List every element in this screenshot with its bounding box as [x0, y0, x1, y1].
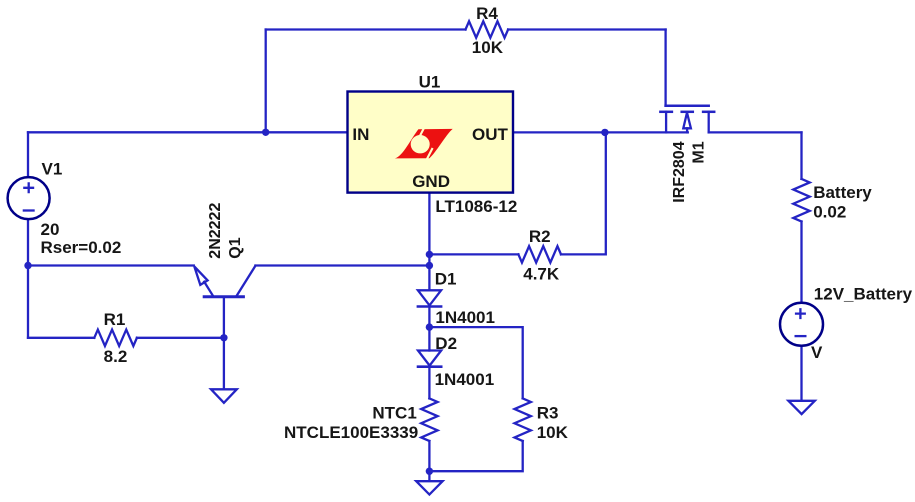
svg-text:R1: R1 — [104, 310, 126, 329]
resistor NTC1 — [421, 398, 437, 441]
svg-text:4.7K: 4.7K — [523, 265, 560, 284]
svg-text:2N2222: 2N2222 — [207, 203, 224, 259]
node dot OUT/R2 junction — [601, 129, 608, 136]
wire top rail right — [508, 28, 665, 30]
regulator U1 box — [348, 92, 514, 193]
wire IN rail — [28, 131, 348, 133]
wire R3 branch top — [429, 327, 522, 398]
wire battery resistor bottom — [800, 222, 802, 303]
transistor Q1 emitter diagonal — [204, 282, 212, 296]
wire 12V battery bottom — [800, 346, 802, 401]
svg-text:GND: GND — [412, 172, 450, 191]
wire D1 to D2 — [428, 307, 430, 351]
wire V1 top — [27, 132, 29, 177]
svg-text:12V_Battery: 12V_Battery — [814, 285, 913, 304]
V1 plus — [23, 182, 35, 210]
wire D2 to NTC1 — [428, 367, 430, 399]
node dot GND/R2 junction — [426, 251, 433, 258]
svg-text:OUT: OUT — [472, 125, 509, 144]
svg-text:0.02: 0.02 — [813, 203, 846, 222]
mosfet M1 body arrow — [683, 113, 691, 129]
node dot D1/D2/R3 junction — [426, 323, 433, 330]
wire R2 right leg — [561, 132, 606, 254]
wire R2 left — [429, 253, 518, 255]
node dot GND/collector junction — [426, 262, 433, 269]
svg-text:R3: R3 — [537, 403, 559, 422]
svg-text:IN: IN — [352, 125, 369, 144]
svg-text:Battery: Battery — [813, 183, 872, 202]
wire U1 GND lead — [428, 193, 430, 291]
wire emitter rail — [28, 264, 194, 266]
wire collector rail — [255, 264, 429, 266]
wire top rail left — [266, 28, 466, 30]
resistor R2 — [518, 246, 561, 262]
diode D1 — [418, 290, 441, 305]
wire mid ground lead — [428, 471, 430, 481]
mosfet M1 gate lead — [664, 30, 666, 106]
svg-text:R4: R4 — [476, 4, 498, 23]
svg-text:D1: D1 — [435, 269, 457, 288]
ground right — [788, 401, 814, 414]
diode D2 — [418, 351, 441, 366]
node dot V1/emitter junction — [24, 262, 31, 269]
wire R1 lead left — [28, 337, 94, 339]
svg-text:20: 20 — [41, 220, 60, 239]
V1 minus — [23, 209, 35, 211]
resistor R1 — [94, 330, 137, 346]
diode D2 bar — [418, 365, 441, 368]
wire V1 bottom to R1 — [27, 219, 29, 337]
svg-text:M1: M1 — [691, 141, 708, 163]
mosfet M1 channel seg2 — [682, 111, 693, 114]
node dot IN/R4 junction — [24, 129, 608, 475]
svg-text:V1: V1 — [42, 159, 63, 178]
wire OUT rail — [513, 131, 688, 133]
12V minus — [795, 335, 807, 337]
wire Q1 ground lead — [223, 338, 225, 389]
svg-text:R2: R2 — [529, 227, 551, 246]
resistor R4 — [466, 21, 509, 37]
svg-text:NTC1: NTC1 — [372, 403, 416, 422]
node dot Q1 base/R1 junction — [220, 334, 227, 341]
wire battery resistor top — [800, 132, 802, 179]
ground mid — [416, 481, 442, 494]
voltage source V1 — [8, 177, 50, 219]
transistor Q1 base bar — [204, 295, 243, 298]
transistor Q1 base lead — [223, 297, 225, 338]
mosfet M1 source lead — [708, 112, 710, 133]
svg-text:10K: 10K — [472, 38, 504, 57]
ground under Q1 — [211, 389, 237, 403]
svg-text:U1: U1 — [419, 72, 441, 91]
wire R1 right — [137, 337, 224, 339]
wire R4 left leg — [265, 30, 267, 133]
wire R3 bottom — [429, 441, 522, 471]
mosfet M1 channel seg3 — [703, 111, 714, 114]
voltage source 12V_Battery — [780, 303, 823, 346]
mosfet M1 channel seg1 — [660, 111, 672, 114]
U1 LT logo — [395, 128, 453, 161]
mosfet M1 body lead — [686, 128, 688, 132]
svg-text:1N4001: 1N4001 — [435, 370, 495, 389]
svg-text:8.2: 8.2 — [104, 347, 128, 366]
svg-text:V: V — [811, 343, 823, 362]
svg-text:Rser=0.02: Rser=0.02 — [41, 238, 122, 257]
resistor R3 — [515, 398, 531, 441]
svg-text:NTCLE100E3339: NTCLE100E3339 — [284, 423, 418, 442]
wire source rail — [709, 131, 802, 133]
mosfet M1 gate bar — [666, 105, 709, 108]
transistor Q1 collector diagonal — [237, 266, 256, 296]
transistor Q1 arrowhead — [194, 266, 207, 285]
mosfet M1 drain lead — [665, 112, 667, 133]
12V plus — [795, 308, 807, 336]
resistor Battery — [793, 179, 809, 222]
wire NTC1 bottom — [428, 441, 430, 471]
node dot NTC1/R3 bottom junction — [426, 468, 433, 475]
svg-text:Q1: Q1 — [227, 237, 244, 258]
diode D1 bar — [418, 305, 441, 308]
svg-text:D2: D2 — [435, 334, 457, 353]
svg-text:10K: 10K — [537, 423, 569, 442]
svg-text:LT1086-12: LT1086-12 — [435, 197, 517, 216]
svg-text:IRF2804: IRF2804 — [671, 141, 688, 202]
svg-text:1N4001: 1N4001 — [435, 308, 495, 327]
